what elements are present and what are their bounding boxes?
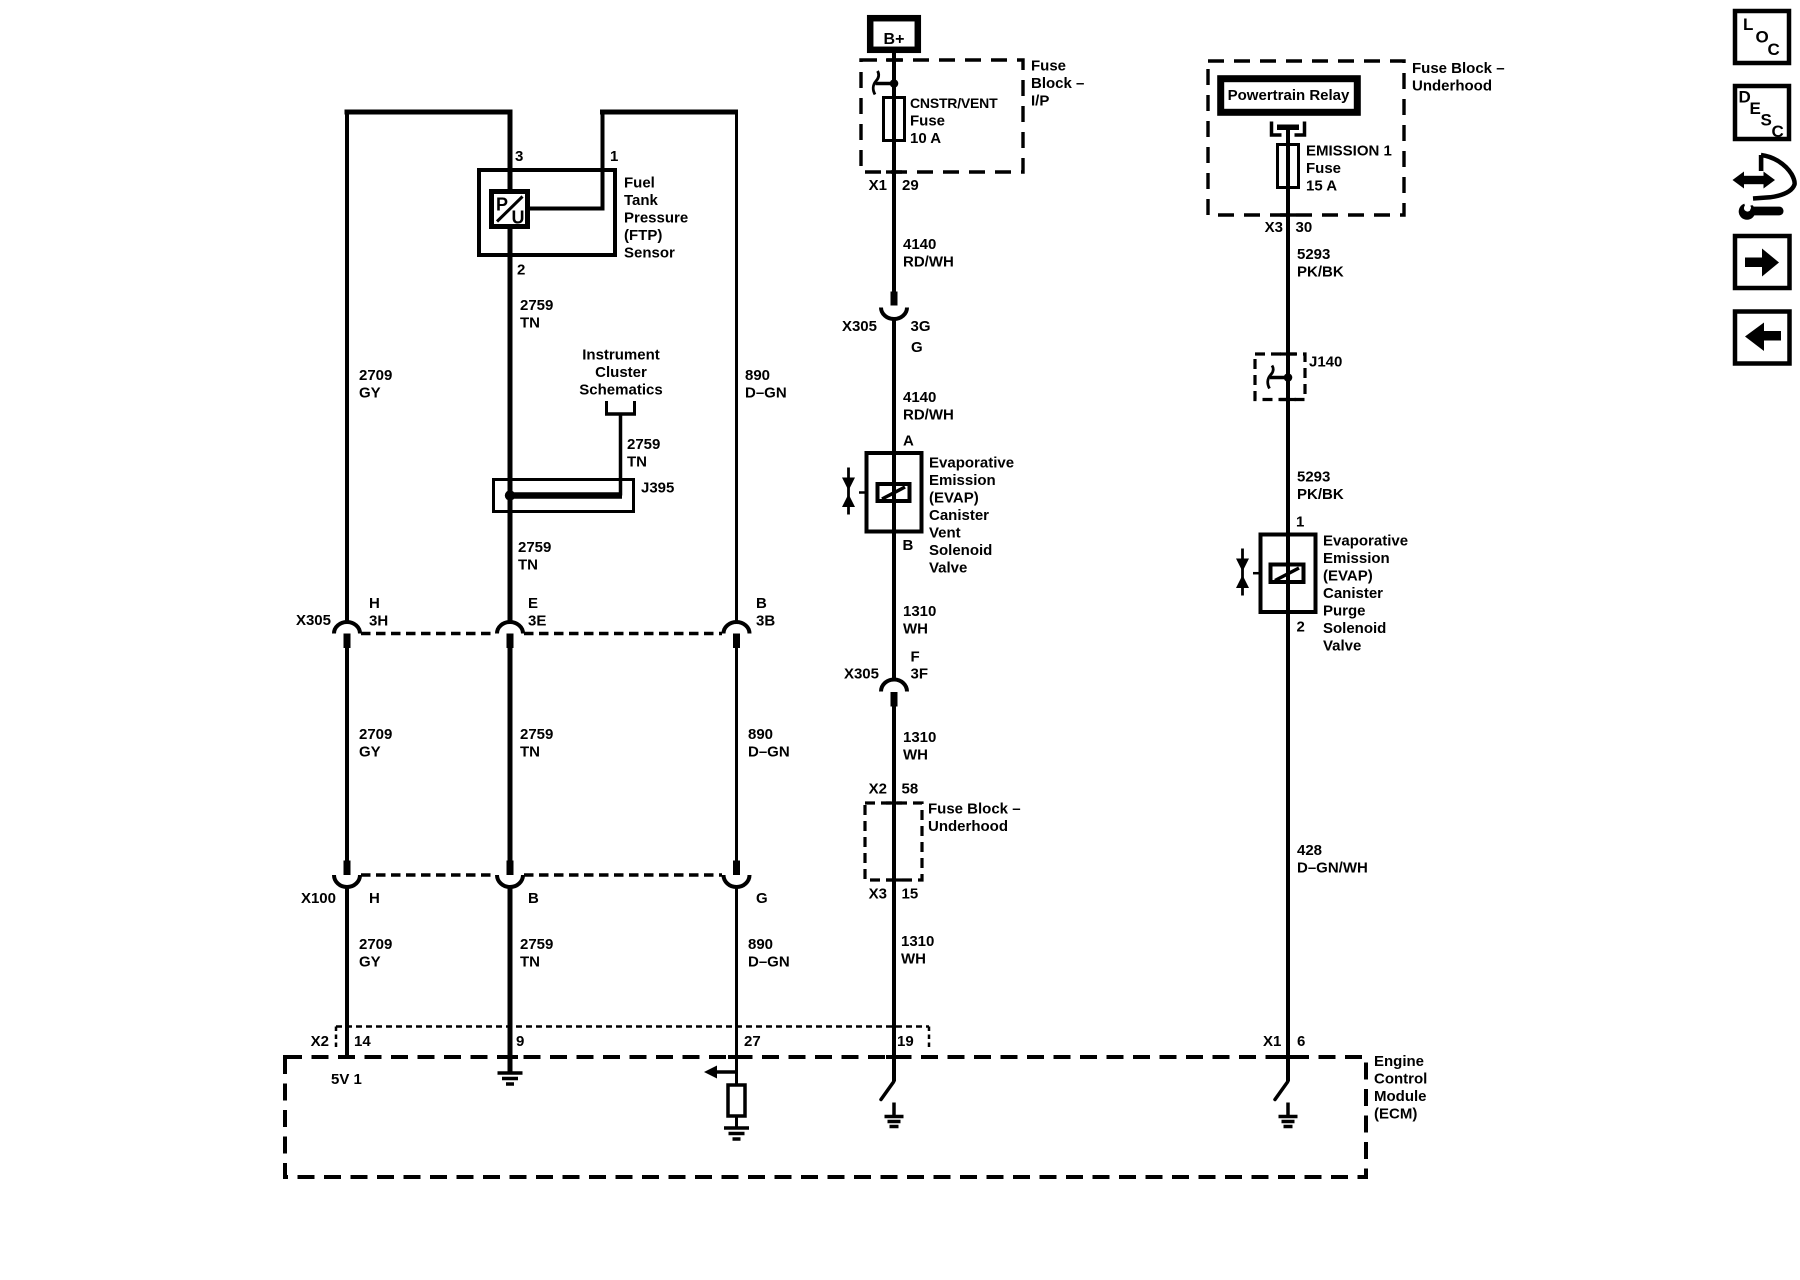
svg-text:428: 428 xyxy=(1297,842,1322,859)
svg-text:A: A xyxy=(903,433,914,450)
svg-text:E: E xyxy=(528,595,538,612)
svg-text:TN: TN xyxy=(627,454,647,471)
svg-text:14: 14 xyxy=(354,1033,371,1050)
svg-text:J140: J140 xyxy=(1309,354,1342,371)
svg-text:(EVAP): (EVAP) xyxy=(1323,568,1373,585)
svg-text:B: B xyxy=(756,595,767,612)
svg-text:RD/WH: RD/WH xyxy=(903,407,954,424)
svg-text:Valve: Valve xyxy=(929,560,967,577)
svg-text:RD/WH: RD/WH xyxy=(903,254,954,271)
svg-text:P: P xyxy=(496,195,508,215)
svg-text:Emission: Emission xyxy=(1323,550,1390,567)
svg-text:WH: WH xyxy=(903,621,928,638)
svg-text:E: E xyxy=(1750,99,1761,118)
svg-text:X2: X2 xyxy=(311,1033,329,1050)
svg-text:5293: 5293 xyxy=(1297,246,1330,263)
svg-text:X305: X305 xyxy=(296,612,331,629)
svg-text:EMISSION 1: EMISSION 1 xyxy=(1306,143,1392,160)
svg-text:Evaporative: Evaporative xyxy=(1323,533,1408,550)
svg-text:Pressure: Pressure xyxy=(624,210,688,227)
svg-text:2709: 2709 xyxy=(359,367,392,384)
svg-text:Valve: Valve xyxy=(1323,638,1361,655)
svg-text:890: 890 xyxy=(745,367,770,384)
svg-text:I/P: I/P xyxy=(1031,93,1049,110)
svg-text:Fuse: Fuse xyxy=(1306,160,1341,177)
svg-text:H: H xyxy=(369,595,380,612)
svg-text:58: 58 xyxy=(902,781,919,798)
svg-text:1: 1 xyxy=(610,148,618,165)
svg-text:Cluster: Cluster xyxy=(595,364,647,381)
svg-text:Schematics: Schematics xyxy=(579,382,662,399)
svg-text:3F: 3F xyxy=(911,666,929,683)
svg-text:GY: GY xyxy=(359,744,381,761)
svg-text:C: C xyxy=(1768,40,1780,59)
svg-text:1310: 1310 xyxy=(903,603,936,620)
svg-text:2759: 2759 xyxy=(627,436,660,453)
svg-text:Canister: Canister xyxy=(1323,585,1383,602)
svg-text:CNSTR/VENT: CNSTR/VENT xyxy=(910,95,998,111)
svg-text:1: 1 xyxy=(1296,514,1304,531)
svg-text:H: H xyxy=(369,890,380,907)
svg-text:3E: 3E xyxy=(528,613,546,630)
svg-text:B: B xyxy=(528,890,539,907)
svg-text:L: L xyxy=(1743,15,1753,34)
svg-text:Fuse: Fuse xyxy=(910,113,945,130)
svg-text:Module: Module xyxy=(1374,1088,1427,1105)
svg-text:X3: X3 xyxy=(1265,219,1283,236)
svg-text:TN: TN xyxy=(520,744,540,761)
svg-text:19: 19 xyxy=(897,1033,914,1050)
svg-text:X100: X100 xyxy=(301,890,336,907)
svg-text:S: S xyxy=(1761,111,1772,130)
svg-text:2759: 2759 xyxy=(520,726,553,743)
svg-text:Instrument: Instrument xyxy=(582,347,660,364)
svg-text:2: 2 xyxy=(1297,619,1305,636)
svg-text:Fuel: Fuel xyxy=(624,175,655,192)
svg-text:Fuse Block –: Fuse Block – xyxy=(928,801,1021,818)
svg-text:890: 890 xyxy=(748,936,773,953)
svg-text:2759: 2759 xyxy=(520,936,553,953)
svg-text:TN: TN xyxy=(520,954,540,971)
svg-text:Control: Control xyxy=(1374,1071,1427,1088)
svg-text:Solenoid: Solenoid xyxy=(929,542,992,559)
svg-text:15 A: 15 A xyxy=(1306,178,1337,195)
svg-text:Sensor: Sensor xyxy=(624,245,675,262)
svg-text:2709: 2709 xyxy=(359,726,392,743)
svg-text:D–GN: D–GN xyxy=(748,954,790,971)
svg-text:(ECM): (ECM) xyxy=(1374,1106,1417,1123)
svg-text:2759: 2759 xyxy=(520,297,553,314)
svg-text:2: 2 xyxy=(517,262,525,279)
svg-text:2759: 2759 xyxy=(518,539,551,556)
svg-text:Vent: Vent xyxy=(929,525,961,542)
svg-text:B+: B+ xyxy=(884,31,905,48)
svg-text:PK/BK: PK/BK xyxy=(1297,486,1344,503)
svg-text:PK/BK: PK/BK xyxy=(1297,264,1344,281)
svg-text:10 A: 10 A xyxy=(910,130,941,147)
svg-text:Canister: Canister xyxy=(929,507,989,524)
svg-text:J395: J395 xyxy=(641,480,674,497)
svg-text:TN: TN xyxy=(518,557,538,574)
svg-text:Emission: Emission xyxy=(929,472,996,489)
svg-text:G: G xyxy=(911,339,923,356)
svg-text:TN: TN xyxy=(520,315,540,332)
svg-text:Purge: Purge xyxy=(1323,603,1366,620)
svg-text:Evaporative: Evaporative xyxy=(929,455,1014,472)
svg-text:WH: WH xyxy=(903,747,928,764)
svg-text:4140: 4140 xyxy=(903,236,936,253)
svg-text:Fuse Block –: Fuse Block – xyxy=(1412,60,1505,77)
svg-text:3G: 3G xyxy=(911,318,931,335)
svg-text:Underhood: Underhood xyxy=(1412,78,1492,95)
svg-text:9: 9 xyxy=(516,1033,524,1050)
svg-text:1310: 1310 xyxy=(903,729,936,746)
svg-text:15: 15 xyxy=(902,886,919,903)
svg-text:1310: 1310 xyxy=(901,933,934,950)
svg-text:X2: X2 xyxy=(869,781,887,798)
svg-text:4140: 4140 xyxy=(903,389,936,406)
svg-text:Powertrain Relay: Powertrain Relay xyxy=(1228,87,1350,104)
svg-text:2709: 2709 xyxy=(359,936,392,953)
svg-text:890: 890 xyxy=(748,726,773,743)
svg-text:X3: X3 xyxy=(869,886,887,903)
svg-text:X305: X305 xyxy=(844,666,879,683)
svg-text:(EVAP): (EVAP) xyxy=(929,490,979,507)
svg-text:27: 27 xyxy=(744,1033,761,1050)
svg-text:U: U xyxy=(512,208,525,228)
svg-text:Solenoid: Solenoid xyxy=(1323,620,1386,637)
svg-text:3H: 3H xyxy=(369,613,388,630)
svg-text:B: B xyxy=(903,537,914,554)
svg-text:3: 3 xyxy=(515,148,523,165)
svg-text:WH: WH xyxy=(901,951,926,968)
svg-text:F: F xyxy=(911,649,920,666)
svg-text:5V 1: 5V 1 xyxy=(331,1071,362,1088)
svg-text:C: C xyxy=(1772,122,1784,141)
svg-text:GY: GY xyxy=(359,385,381,402)
svg-text:(FTP): (FTP) xyxy=(624,227,662,244)
svg-text:X1: X1 xyxy=(1263,1033,1281,1050)
svg-text:D–GN: D–GN xyxy=(745,385,787,402)
svg-text:30: 30 xyxy=(1296,219,1313,236)
svg-text:X1: X1 xyxy=(869,177,887,194)
svg-text:Engine: Engine xyxy=(1374,1053,1424,1070)
svg-text:G: G xyxy=(756,890,768,907)
svg-text:Tank: Tank xyxy=(624,192,659,209)
svg-text:X305: X305 xyxy=(842,318,877,335)
svg-text:D–GN: D–GN xyxy=(748,744,790,761)
svg-text:Fuse: Fuse xyxy=(1031,58,1066,75)
svg-text:6: 6 xyxy=(1297,1033,1305,1050)
svg-text:D–GN/WH: D–GN/WH xyxy=(1297,860,1368,877)
svg-text:3B: 3B xyxy=(756,613,775,630)
svg-text:Block –: Block – xyxy=(1031,75,1084,92)
svg-text:GY: GY xyxy=(359,954,381,971)
svg-text:5293: 5293 xyxy=(1297,469,1330,486)
svg-text:29: 29 xyxy=(902,177,919,194)
svg-text:Underhood: Underhood xyxy=(928,818,1008,835)
